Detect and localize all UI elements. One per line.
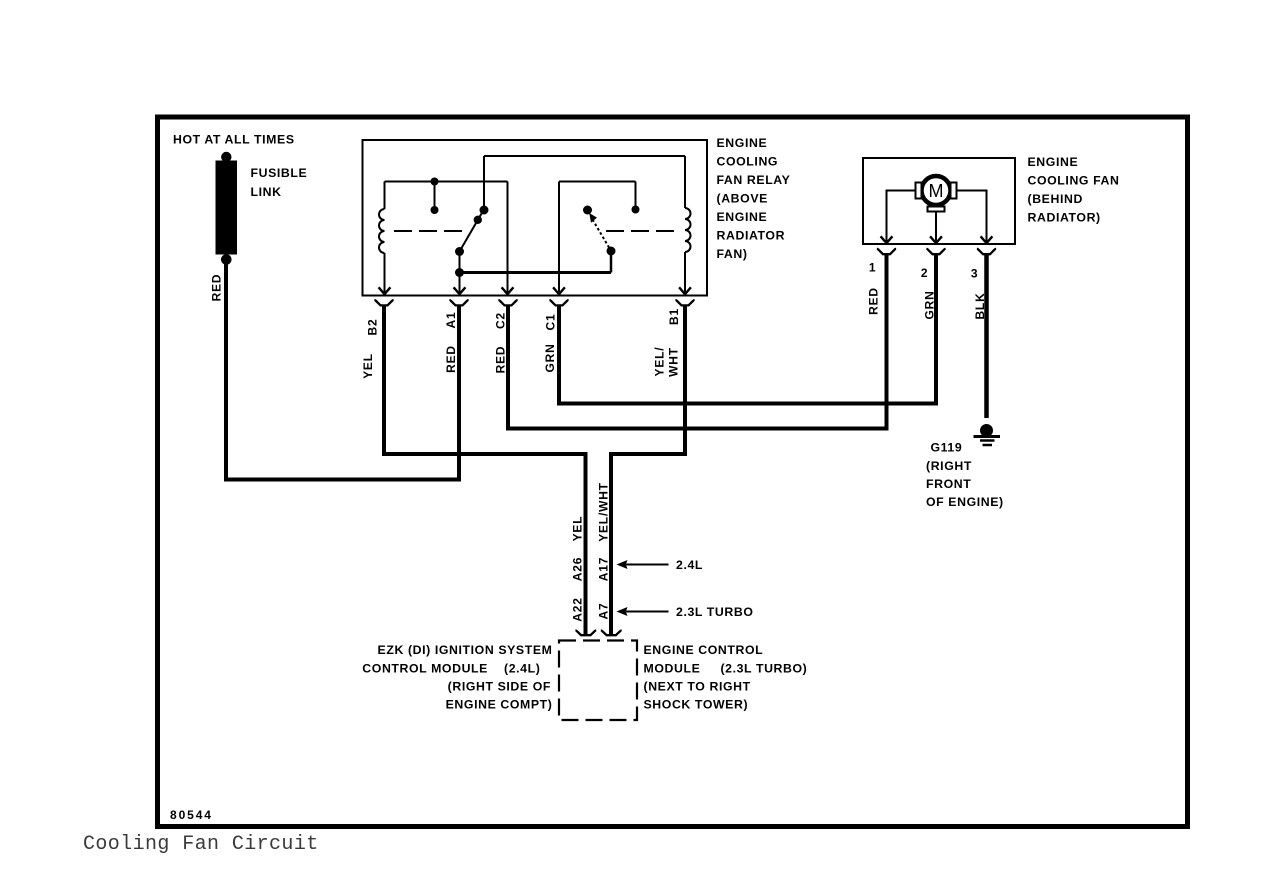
svg-text:COOLING FAN: COOLING FAN bbox=[1028, 174, 1120, 188]
ECM pin connector cups (inverted) bbox=[575, 630, 621, 635]
wire: motor right lead to pin 3 bbox=[957, 191, 987, 243]
wire YEL: relay B2 to ECM pin A26/A22 bbox=[384, 306, 586, 634]
svg-text:B1: B1 bbox=[667, 308, 681, 325]
callout arrow 2.3L TURBO bbox=[617, 605, 754, 619]
ground G119 symbol bbox=[974, 424, 1001, 445]
svg-text:(BEHIND: (BEHIND bbox=[1028, 192, 1083, 206]
relay name label bbox=[717, 136, 791, 261]
svg-text:C1: C1 bbox=[544, 314, 558, 331]
wire: NO feed from top bbox=[483, 156, 485, 207]
svg-text:FRONT: FRONT bbox=[926, 477, 971, 491]
node: switch1 NO contact bbox=[480, 206, 489, 215]
node: switch2 NO contact bbox=[632, 206, 640, 214]
svg-text:YEL/WHT: YEL/WHT bbox=[597, 482, 611, 542]
wire: motor left lead to pin 1 bbox=[887, 191, 916, 243]
svg-text:OF ENGINE): OF ENGINE) bbox=[926, 495, 1004, 509]
fusible link bbox=[216, 152, 238, 265]
node: switch2 lower contact bbox=[607, 247, 616, 256]
wire: motor bottom lead to pin 2 bbox=[935, 212, 937, 243]
fan pin connector cups bbox=[877, 249, 996, 254]
svg-text:GRN: GRN bbox=[923, 290, 937, 319]
motor M1 symbol bbox=[916, 176, 957, 212]
wire: switch1 common down to A1 arrow bbox=[459, 252, 461, 294]
svg-text:FUSIBLE: FUSIBLE bbox=[251, 166, 308, 180]
svg-text:(RIGHT SIDE OF: (RIGHT SIDE OF bbox=[448, 679, 551, 693]
svg-text:HOT AT ALL TIMES: HOT AT ALL TIMES bbox=[173, 133, 295, 147]
svg-text:ENGINE: ENGINE bbox=[1028, 155, 1079, 169]
EZK module label bbox=[362, 643, 552, 712]
wire: top feed bus to coil 2 bbox=[484, 155, 685, 157]
wire: C2 leg bbox=[507, 182, 509, 294]
fan motor box: ENGINE COOLING FAN bbox=[863, 158, 1015, 244]
svg-text:1: 1 bbox=[869, 261, 876, 275]
svg-text:RED: RED bbox=[444, 345, 458, 373]
wire: crossover bus between switch commons bbox=[460, 271, 612, 274]
svg-text:ENGINE: ENGINE bbox=[717, 136, 768, 150]
svg-text:ENGINE CONTROL: ENGINE CONTROL bbox=[644, 643, 764, 657]
svg-text:LINK: LINK bbox=[251, 185, 282, 199]
switch 1 blade (closed) bbox=[455, 211, 483, 256]
fan pin arrows at box bottom bbox=[881, 236, 993, 243]
wire RED: fusible link to relay pin A1 bbox=[226, 260, 459, 480]
svg-text:YEL/: YEL/ bbox=[653, 347, 667, 377]
dashed actuator line coil1-switch1 bbox=[394, 230, 464, 232]
dashed actuator line switch2-coil2 bbox=[606, 230, 680, 232]
svg-text:A1: A1 bbox=[444, 312, 458, 329]
switch 2 blade (open, dashed with arrow) bbox=[589, 213, 610, 250]
callout arrow 2.4L bbox=[617, 558, 704, 572]
svg-text:2.3L TURBO: 2.3L TURBO bbox=[676, 605, 754, 619]
wire BLK: fan pin 3 to ground bbox=[984, 255, 989, 418]
ECM dashed module box bbox=[559, 641, 637, 721]
svg-text:RADIATOR): RADIATOR) bbox=[1028, 211, 1101, 225]
wire: switch2 common down to crossover bus bbox=[610, 251, 613, 273]
fan name label bbox=[1028, 155, 1120, 225]
svg-text:Cooling Fan Circuit: Cooling Fan Circuit bbox=[83, 833, 319, 856]
svg-text:MODULE (2.3L TURBO): MODULE (2.3L TURBO) bbox=[644, 661, 808, 675]
svg-text:80544: 80544 bbox=[170, 808, 213, 822]
relay coil 2 bbox=[685, 156, 691, 294]
wire YEL/WHT: relay B1 to ECM pin A17/A7 bbox=[611, 306, 685, 634]
svg-text:(RIGHT: (RIGHT bbox=[926, 459, 972, 473]
ground G119 label bbox=[926, 441, 1004, 510]
ECM module label bbox=[644, 643, 808, 712]
svg-text:GRN: GRN bbox=[543, 343, 557, 372]
svg-text:RED: RED bbox=[867, 287, 881, 315]
contact stub with dot bbox=[434, 182, 436, 208]
svg-text:A22: A22 bbox=[571, 597, 585, 621]
svg-text:(ABOVE: (ABOVE bbox=[717, 192, 768, 206]
svg-text:FAN): FAN) bbox=[717, 247, 748, 261]
svg-text:WHT: WHT bbox=[667, 347, 681, 377]
svg-text:M: M bbox=[929, 181, 944, 201]
svg-text:YEL: YEL bbox=[361, 353, 375, 379]
svg-text:C2: C2 bbox=[494, 312, 508, 329]
svg-text:3: 3 bbox=[971, 267, 978, 281]
wire: C1 leg bbox=[558, 182, 560, 294]
svg-text:YEL: YEL bbox=[571, 516, 585, 542]
svg-text:RADIATOR: RADIATOR bbox=[717, 229, 786, 243]
svg-text:2: 2 bbox=[921, 266, 928, 280]
svg-text:FAN RELAY: FAN RELAY bbox=[717, 173, 791, 187]
svg-text:A26: A26 bbox=[571, 557, 585, 581]
node: switch2 pivot contact bbox=[583, 206, 592, 215]
node: junction dot on top bus bbox=[431, 178, 439, 186]
svg-text:ENGINE COMPT): ENGINE COMPT) bbox=[446, 698, 553, 712]
relay coil 1 bbox=[379, 182, 384, 294]
wire: relay internal top bus (coil1 to C2 leg) bbox=[385, 181, 508, 183]
relay pin arrows at box bottom bbox=[379, 287, 691, 294]
svg-text:SHOCK TOWER): SHOCK TOWER) bbox=[644, 698, 749, 712]
svg-text:(NEXT TO RIGHT: (NEXT TO RIGHT bbox=[644, 679, 751, 693]
wire: switch2 top bus (C1 leg to NO contact) bbox=[559, 181, 636, 183]
svg-text:COOLING: COOLING bbox=[717, 155, 779, 169]
svg-text:ENGINE: ENGINE bbox=[717, 210, 768, 224]
relay pin connector cups bbox=[374, 300, 694, 305]
svg-text:CONTROL MODULE (2.4L): CONTROL MODULE (2.4L) bbox=[362, 661, 540, 675]
svg-text:A7: A7 bbox=[597, 603, 611, 620]
node: junction switch1 common / crossover bus bbox=[455, 268, 464, 277]
svg-text:RED: RED bbox=[210, 274, 224, 302]
svg-text:2.4L: 2.4L bbox=[676, 558, 703, 572]
wire: switch2 NO stub bbox=[635, 182, 637, 207]
relay U1 box: ENGINE COOLING FAN RELAY bbox=[363, 140, 708, 296]
svg-text:RED: RED bbox=[494, 346, 508, 374]
wire RED: relay C2 to fan pin 1 bbox=[508, 255, 887, 429]
svg-text:A17: A17 bbox=[597, 557, 611, 581]
svg-text:B2: B2 bbox=[366, 319, 380, 336]
svg-text:G119: G119 bbox=[931, 441, 963, 455]
svg-text:EZK (DI) IGNITION SYSTEM: EZK (DI) IGNITION SYSTEM bbox=[378, 643, 553, 657]
wire GRN: relay C1 to fan pin 2 bbox=[559, 255, 936, 404]
